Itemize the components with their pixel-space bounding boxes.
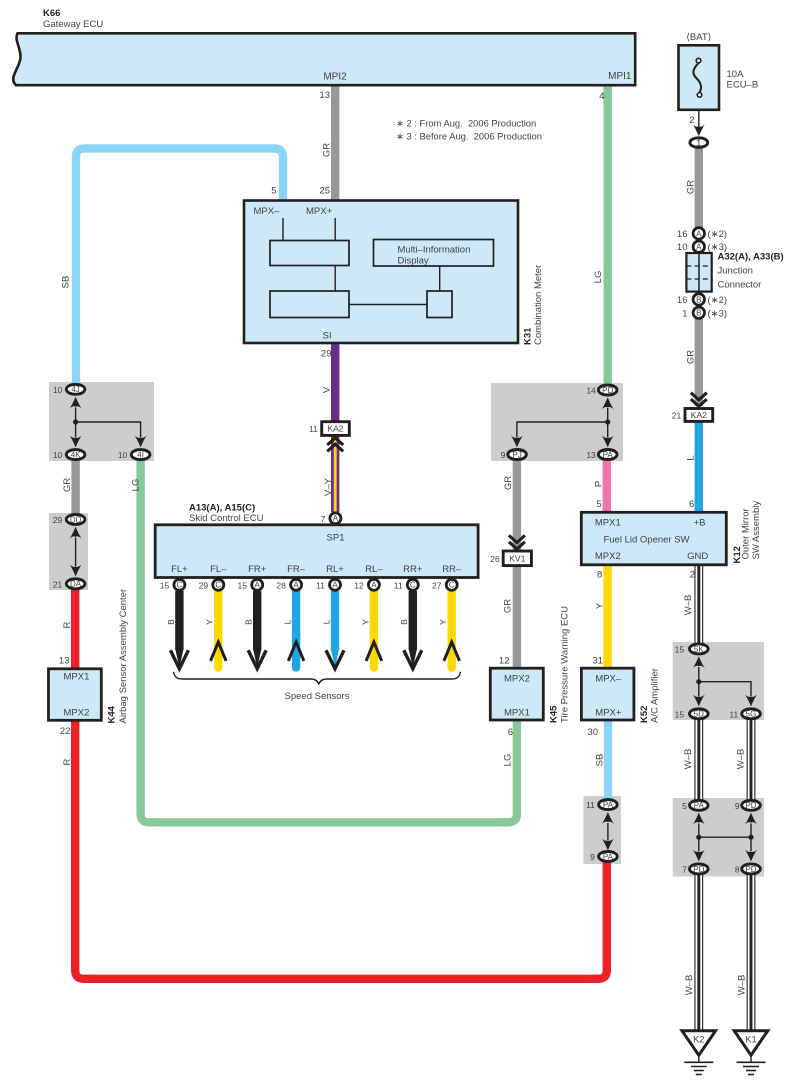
svg-text:FL+: FL+: [171, 564, 188, 575]
arrow up to 11PA: [602, 812, 614, 824]
connector DA: [53, 579, 85, 590]
connector PA: [586, 450, 617, 461]
svg-text:RR–: RR–: [442, 564, 462, 575]
junction node 4J: [73, 419, 78, 424]
wire W-B from 8PD to ground K1: [747, 875, 756, 1032]
svg-text:A: A: [332, 581, 338, 590]
svg-text:22: 22: [60, 726, 71, 737]
svg-text:16: 16: [677, 295, 688, 306]
pin circle A 28 of skid ECU: [276, 579, 301, 590]
svg-text:⟨BAT⟩: ⟨BAT⟩: [686, 32, 711, 43]
arrow down to PJ: [511, 436, 523, 448]
fuel lid opener SW box: [581, 512, 726, 565]
svg-text:31: 31: [592, 656, 603, 667]
svg-text:Skid Control ECU: Skid Control ECU: [189, 513, 264, 524]
pin circle A 15 of skid ECU: [238, 579, 263, 590]
internal block 2 of K31: [270, 291, 349, 318]
svg-text:∗ 2 : From Aug. 2006 Producti: ∗ 2 : From Aug. 2006 Production: [396, 118, 536, 129]
svg-text:10: 10: [677, 242, 688, 253]
arrow up to DD: [70, 527, 82, 539]
svg-text:DD: DD: [70, 515, 82, 524]
svg-text:(∗2): (∗2): [708, 229, 728, 240]
svg-text:KA2: KA2: [327, 424, 343, 434]
svg-text:5: 5: [682, 801, 687, 811]
svg-text:SP1: SP1: [327, 533, 345, 544]
svg-text:2: 2: [689, 115, 694, 126]
lead DD to DA: [75, 538, 77, 567]
svg-text:MPI2: MPI2: [323, 72, 347, 83]
chevron end speed sensor 4: [288, 642, 304, 661]
svg-text:PA: PA: [603, 852, 614, 861]
svg-text:ECU–B: ECU–B: [727, 80, 759, 91]
connector 7PD: [682, 864, 708, 875]
svg-text:11: 11: [729, 709, 738, 719]
svg-text:Speed Sensors: Speed Sensors: [285, 691, 350, 702]
svg-text:LG: LG: [131, 479, 142, 492]
combination meter K31 box: [244, 201, 518, 344]
svg-text:KV1: KV1: [509, 553, 525, 563]
wire GR junction connector B to KA2: [695, 318, 703, 406]
chevron end speed sensor 6: [366, 642, 382, 661]
svg-text:8: 8: [597, 570, 602, 581]
svg-text:13: 13: [586, 450, 596, 460]
lead junction to 4K: [75, 422, 77, 437]
svg-text:FR+: FR+: [248, 564, 267, 575]
internal lead display to block3: [439, 266, 441, 291]
svg-text:KA2: KA2: [691, 410, 707, 420]
connector circle A pin7 SP1: [321, 513, 341, 524]
pin circle C 15 of skid ECU: [160, 579, 185, 590]
svg-text:Airbag Sensor Assembly Center: Airbag Sensor Assembly Center: [118, 589, 129, 724]
svg-text:L: L: [283, 619, 293, 624]
svg-text:4: 4: [599, 91, 604, 102]
svg-text:Y: Y: [438, 619, 448, 625]
arrow down to DA: [70, 565, 82, 577]
svg-text:Y: Y: [360, 619, 370, 625]
svg-text:K31: K31: [523, 327, 534, 345]
speed sensors brace: [174, 672, 461, 684]
internal lead MPX- to block: [282, 218, 284, 241]
junction block shade at 4J/4K/4I: [49, 382, 154, 461]
svg-text:MPI1: MPI1: [608, 71, 632, 82]
svg-text:C: C: [449, 581, 455, 590]
svg-text:LG: LG: [503, 754, 514, 767]
lead junction to 5D: [698, 682, 700, 696]
svg-text:15: 15: [675, 645, 685, 655]
svg-text:Connector: Connector: [718, 280, 762, 291]
svg-text:Display: Display: [398, 256, 429, 267]
pin circle C 27 of skid ECU: [432, 579, 457, 590]
airbag sensor assembly K44 box: [49, 669, 102, 721]
lead junction to 5G: [699, 682, 751, 696]
svg-text:W–B: W–B: [683, 749, 694, 770]
arrow down to 5G: [745, 695, 757, 707]
svg-text:MPX1: MPX1: [595, 518, 621, 529]
junction node 9PD: [748, 835, 753, 840]
svg-text:A13(A), A15(C): A13(A), A15(C): [189, 503, 255, 514]
junction block shade at 5PA/9PD/7PD/8PD: [673, 798, 764, 877]
svg-text:13: 13: [319, 90, 330, 101]
wire SB from K52 MPX+ to 11PA: [604, 720, 612, 800]
svg-text:MPX–: MPX–: [595, 674, 622, 685]
svg-text:(∗3): (∗3): [708, 308, 728, 319]
internal block 3 of K31: [427, 291, 452, 318]
svg-text:Multi–Information: Multi–Information: [398, 245, 471, 256]
svg-text:DA: DA: [70, 580, 82, 589]
svg-text:9: 9: [735, 801, 740, 811]
arrow down to 4I: [135, 436, 147, 448]
arrow up to 4J: [70, 397, 82, 409]
svg-text:PD: PD: [602, 386, 613, 395]
arrow end speed sensor 1: [170, 649, 188, 669]
arrow down to 9PA: [602, 839, 614, 851]
svg-text:A: A: [255, 581, 261, 590]
wire R from K44 MPX2 to 9PA: [75, 720, 607, 979]
skid control ECU box: [155, 525, 478, 578]
lead 4J to junction: [75, 408, 77, 423]
svg-text:26: 26: [490, 554, 500, 564]
connector KA2 (pin 21): [672, 409, 713, 422]
svg-text:5: 5: [596, 499, 601, 510]
wire LG from K66 MPI1 to connector PD: [604, 85, 612, 385]
wire B speed sensor 1: [175, 591, 183, 650]
arrow down to 5D: [693, 695, 705, 707]
lead junction to 7PD: [698, 837, 700, 851]
svg-text:11: 11: [586, 800, 595, 810]
tire pressure warning ECU K45 box: [490, 668, 543, 720]
wire B speed sensor 7: [409, 591, 417, 650]
wire GR from K66 MPI2 to K31 MPX+: [331, 85, 339, 201]
lead junction to 4I: [76, 422, 141, 437]
lead 5K to junction: [698, 667, 700, 682]
svg-text:8: 8: [735, 865, 740, 875]
connector PD: [586, 385, 617, 396]
svg-text:(∗2): (∗2): [708, 295, 728, 306]
svg-text:4K: 4K: [71, 451, 81, 460]
svg-text:A: A: [293, 581, 299, 590]
svg-text:C: C: [410, 581, 416, 590]
lead 11PA to 9PA: [607, 823, 609, 840]
pin circle C 11 of skid ECU: [394, 579, 419, 590]
arrow down to PA: [602, 436, 614, 448]
svg-text:9: 9: [590, 852, 595, 862]
connector 8PD: [735, 864, 760, 875]
wire P from PA to Fuel Lid MPX1: [603, 460, 611, 513]
svg-text:GR: GR: [62, 478, 73, 492]
svg-text:1: 1: [682, 308, 687, 319]
connector 5PA: [682, 800, 708, 811]
wire Y speed sensor 6: [370, 591, 378, 668]
junction block shade at 5K/5D/5G: [673, 642, 764, 720]
connector 5G: [729, 709, 760, 720]
svg-text:12: 12: [499, 656, 510, 667]
svg-text:15: 15: [675, 709, 685, 719]
svg-text:K52: K52: [639, 706, 650, 723]
wire LG from 4I to K45 MPX1: [141, 459, 517, 822]
connector circle A (*2) pin16: [693, 228, 704, 239]
wire GR fuse to junction connector A: [695, 148, 703, 228]
connector 4J: [53, 384, 85, 395]
svg-text:21: 21: [672, 410, 682, 420]
svg-text:12: 12: [354, 580, 364, 590]
svg-text:FR–: FR–: [287, 564, 306, 575]
svg-text:Y: Y: [205, 619, 215, 625]
junction node PD: [605, 419, 610, 424]
chevron end speed sensor 2: [211, 642, 227, 661]
arrow end speed sensor 5: [326, 649, 344, 669]
svg-text:W–B: W–B: [737, 975, 748, 996]
svg-text:Gateway ECU: Gateway ECU: [43, 19, 103, 30]
svg-text:B: B: [244, 619, 254, 625]
junction node 5PA: [696, 835, 701, 840]
svg-text:W–B: W–B: [684, 975, 695, 996]
svg-text:29: 29: [53, 515, 63, 525]
svg-text:Y: Y: [595, 602, 606, 609]
svg-text:PD: PD: [745, 801, 756, 810]
wire L from KA2 to Fuel Lid +B: [695, 421, 703, 513]
wire SB from K31 MPX- to connector 4J: [76, 149, 283, 385]
arrow up to 9PD: [745, 813, 757, 825]
arrow down to 7PD: [693, 850, 705, 862]
svg-text:A: A: [696, 243, 702, 252]
svg-text:Outer Mirror: Outer Mirror: [741, 508, 752, 559]
wire GR from KV1 to K45 MPX2: [513, 565, 521, 669]
arrow up to 5PA: [693, 813, 705, 825]
double chevron below KA2: [327, 438, 343, 452]
arrow end speed sensor 3: [248, 649, 266, 669]
svg-text:Junction: Junction: [718, 266, 753, 277]
wire L speed sensor 5: [331, 591, 339, 650]
svg-text:B: B: [696, 295, 701, 304]
svg-text:29: 29: [199, 580, 209, 590]
lead junction to PA: [607, 422, 609, 437]
svg-text:SW Assembly: SW Assembly: [751, 501, 762, 560]
svg-text:SB: SB: [61, 276, 72, 289]
svg-text:GR: GR: [503, 476, 514, 490]
svg-text:11: 11: [316, 580, 325, 590]
fuse element symbol: [693, 58, 701, 97]
wire GR from 4K to DD: [71, 459, 79, 514]
connector circle 1: [690, 138, 708, 148]
svg-text:5: 5: [271, 186, 276, 197]
svg-text:+B: +B: [694, 518, 706, 529]
svg-text:7: 7: [321, 514, 326, 524]
double chevron above KA2 right: [691, 393, 707, 407]
svg-text:10: 10: [53, 385, 63, 395]
svg-text:MPX+: MPX+: [306, 206, 333, 217]
svg-text:6: 6: [689, 499, 694, 510]
svg-text:13: 13: [59, 656, 70, 667]
svg-text:R: R: [62, 758, 73, 765]
arrow down to 4K: [70, 436, 82, 448]
svg-text:A: A: [333, 514, 339, 523]
A/C amplifier K52 box: [581, 668, 634, 720]
svg-text:25: 25: [319, 186, 330, 197]
ground K1: [734, 1031, 768, 1075]
svg-text:B: B: [166, 619, 176, 625]
svg-text:RL–: RL–: [365, 564, 383, 575]
svg-text:Tire Pressure Warning ECU: Tire Pressure Warning ECU: [560, 606, 571, 723]
svg-text:PD: PD: [745, 865, 756, 874]
connector circle B (*2) pin16: [693, 294, 704, 305]
wire Y from Fuel Lid MPX2 to K52 MPX-: [603, 564, 611, 669]
internal lead block2 to block3: [349, 304, 427, 306]
svg-text:21: 21: [53, 579, 63, 589]
svg-text:C: C: [215, 581, 221, 590]
svg-text:6: 6: [508, 727, 513, 738]
svg-text:Fuel Lid Opener SW: Fuel Lid Opener SW: [603, 535, 689, 546]
multi-information display box: [374, 240, 494, 267]
arrow end speed sensor 7: [404, 649, 422, 669]
svg-text:LG: LG: [593, 271, 604, 284]
svg-text:FL–: FL–: [210, 564, 227, 575]
svg-text:27: 27: [432, 580, 442, 590]
svg-text:9: 9: [501, 450, 506, 460]
wire L speed sensor 4: [292, 591, 300, 668]
connector 5D: [675, 709, 708, 720]
wire GR from PJ to KV1: [513, 460, 521, 552]
svg-text:K1: K1: [745, 1035, 756, 1045]
arrow up to 5K: [693, 656, 705, 668]
lead 5PA to junction: [698, 824, 700, 838]
connector 5K: [675, 644, 708, 655]
svg-text:K66: K66: [43, 8, 60, 19]
lead fuse to connector 1: [698, 110, 700, 128]
svg-text:Combination Meter: Combination Meter: [533, 265, 544, 345]
svg-text:∗ 3 : Before Aug. 2006 Produc: ∗ 3 : Before Aug. 2006 Production: [396, 131, 542, 142]
svg-text:MPX2: MPX2: [595, 551, 621, 562]
pin circle C 29 of skid ECU: [199, 579, 224, 590]
svg-text:10: 10: [118, 450, 128, 460]
svg-text:W–B: W–B: [683, 595, 694, 616]
fuse ECU-B box: [679, 45, 720, 110]
svg-text:MPX2: MPX2: [504, 674, 530, 685]
arrow down to connector 1: [693, 124, 705, 136]
gateway ECU K66 bus bar: [13, 33, 635, 85]
svg-text:K44: K44: [107, 705, 118, 723]
wire Y speed sensor 2: [214, 591, 222, 668]
double chevron above KV1: [509, 535, 525, 549]
svg-text:11: 11: [394, 580, 403, 590]
internal lead MPX+ to block: [334, 218, 336, 241]
wire W-B from 5D to 5PA: [694, 719, 703, 800]
svg-text:R: R: [62, 621, 73, 628]
lead 9PD to junction: [750, 824, 752, 838]
svg-text:PA: PA: [694, 801, 705, 810]
svg-text:RR+: RR+: [403, 564, 423, 575]
svg-text:V: V: [322, 386, 333, 393]
svg-text:11: 11: [309, 424, 318, 434]
chevron end speed sensor 8: [444, 642, 460, 661]
svg-text:A/C Amplifier: A/C Amplifier: [650, 668, 661, 723]
svg-text:A: A: [696, 229, 702, 238]
svg-text:MPX+: MPX+: [595, 708, 622, 719]
svg-text:A: A: [371, 581, 377, 590]
svg-text:SB: SB: [595, 754, 606, 767]
junction connector box A32/A33: [686, 253, 711, 292]
wire Y speed sensor 8: [448, 591, 456, 668]
lead junction to 8PD: [750, 837, 752, 851]
wire R from DA to K44 MPX1: [71, 589, 79, 670]
lead PD to junction: [607, 408, 609, 422]
svg-text:PJ: PJ: [512, 450, 521, 459]
svg-text:30: 30: [587, 727, 598, 738]
svg-text:RL+: RL+: [326, 564, 344, 575]
svg-text:16: 16: [677, 229, 688, 240]
ground K2: [682, 1031, 716, 1075]
junction tie line: [699, 836, 751, 838]
connector PJ: [501, 450, 527, 461]
lead junction to PJ: [517, 422, 608, 437]
svg-text:PA: PA: [603, 450, 614, 459]
svg-text:B: B: [399, 619, 409, 625]
connector KV1 (pin 26): [490, 551, 531, 566]
svg-text:V–Y: V–Y: [323, 477, 334, 496]
svg-text:MPX1: MPX1: [504, 708, 530, 719]
arrow up to PD: [602, 397, 614, 409]
svg-text:K45: K45: [549, 705, 560, 723]
svg-text:7: 7: [682, 865, 687, 875]
svg-text:SI: SI: [323, 331, 332, 342]
svg-text:GR: GR: [322, 143, 333, 157]
svg-text:28: 28: [276, 580, 286, 590]
wire V-Y striped from KA2 to SP1: [331, 436, 339, 512]
svg-text:GR: GR: [686, 350, 697, 364]
svg-text:GR: GR: [503, 599, 514, 613]
internal block 1 of K31: [270, 241, 349, 266]
wire W-B from Fuel Lid GND to 5K: [694, 564, 703, 644]
svg-text:C: C: [177, 581, 183, 590]
svg-text:PA: PA: [603, 801, 614, 810]
wire W-B from 7PD to ground K2: [694, 875, 703, 1032]
junction block shade at DD/DA: [49, 513, 88, 590]
svg-text:10: 10: [53, 450, 63, 460]
svg-text:A32(A), A33(B): A32(A), A33(B): [718, 252, 784, 263]
svg-text:GR: GR: [686, 180, 697, 194]
connector circle A (*3) pin10: [693, 241, 704, 252]
connector 11PA: [586, 800, 617, 811]
svg-text:15: 15: [238, 580, 248, 590]
wire W-B from 5G to 9PD: [747, 719, 756, 800]
connector 4I: [118, 450, 150, 461]
svg-text:B: B: [696, 309, 701, 318]
pin circle A 12 of skid ECU: [354, 579, 379, 590]
wire B speed sensor 3: [253, 591, 261, 650]
svg-text:L: L: [686, 455, 697, 460]
svg-text:1: 1: [696, 138, 701, 148]
svg-text:W–B: W–B: [736, 749, 747, 770]
connector 4K: [53, 450, 85, 461]
svg-text:4I: 4I: [137, 451, 144, 460]
arrow down to 8PD: [745, 850, 757, 862]
connector 9PA: [590, 851, 617, 862]
svg-text:10A: 10A: [727, 69, 745, 80]
svg-text:5G: 5G: [746, 710, 757, 719]
svg-text:2: 2: [690, 570, 695, 581]
svg-text:4J: 4J: [71, 385, 79, 394]
pin circle A 11 of skid ECU: [316, 579, 341, 590]
svg-text:15: 15: [160, 580, 170, 590]
junction block shade at PD/PJ/PA: [491, 383, 623, 461]
wire V from K31 SI to connector KA2: [331, 343, 339, 424]
internal lead block1 to block2: [334, 266, 336, 292]
svg-text:MPX–: MPX–: [254, 206, 281, 217]
svg-text:GND: GND: [687, 551, 708, 562]
connector KA2 (pin 11): [309, 422, 349, 436]
svg-text:MPX1: MPX1: [64, 672, 90, 683]
svg-text:MPX2: MPX2: [64, 708, 90, 719]
svg-text:29: 29: [321, 349, 332, 360]
